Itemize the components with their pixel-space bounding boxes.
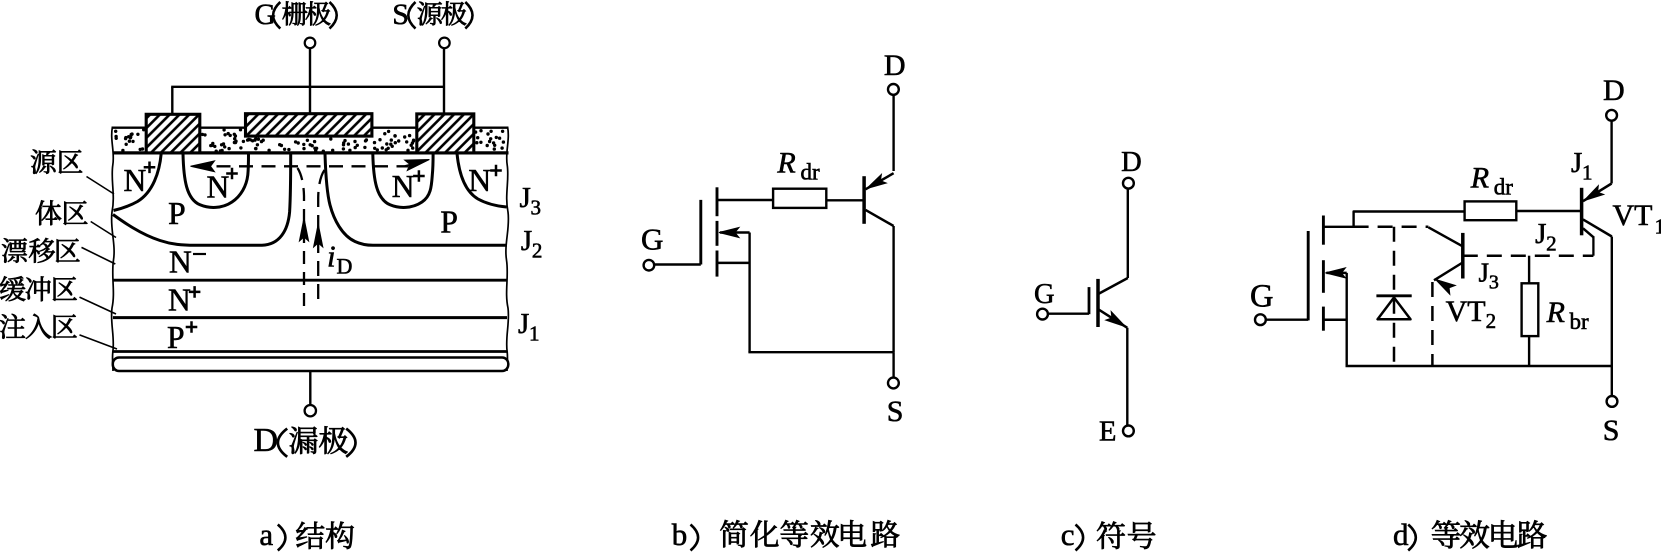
junction J2 P-well boundary left + channel funnel left (a) bbox=[113, 154, 291, 245]
torn edge left (a) bbox=[112, 127, 115, 372]
wire VT1 collector B down to J2 line (d) bbox=[1592, 236, 1594, 256]
leader line 缓冲区 (a) bbox=[80, 297, 117, 314]
wire D vertical (b) bbox=[892, 95, 894, 171]
wire collector down (b) bbox=[892, 226, 894, 352]
label 注入区 injection region (a) bbox=[0, 314, 25, 339]
svg-text:P: P bbox=[440, 204, 458, 239]
transistor V1 emitter diagonal with arrow (b) bbox=[866, 173, 894, 189]
wire drain lead (a) bbox=[309, 371, 311, 405]
dashed base line J2: VT2 base to VT1 collector (d) bbox=[1463, 254, 1594, 257]
wire Rdr to MOSFET drain (b) bbox=[717, 199, 773, 201]
transistor V1 collector diagonal (b) bbox=[866, 210, 894, 226]
svg-text:G: G bbox=[641, 221, 663, 256]
svg-text:c: c bbox=[1061, 517, 1075, 552]
svg-text:i: i bbox=[327, 239, 336, 274]
transistor VT2 collector diagonal (d) bbox=[1428, 227, 1463, 247]
svg-text:S: S bbox=[392, 0, 409, 31]
wire Rdr to VT1 base (d) bbox=[1516, 210, 1581, 212]
terminal D circle (c) bbox=[1123, 178, 1134, 189]
wire source down (b) bbox=[748, 233, 750, 353]
svg-text:N: N bbox=[468, 163, 491, 198]
N+ source pocket far-left (a) bbox=[114, 154, 162, 211]
svg-text:N: N bbox=[207, 170, 230, 205]
MOSFET body arrow (b) bbox=[720, 231, 750, 234]
leader line 体区 (a) bbox=[91, 222, 116, 238]
transistor VT1 collector diagonal A to S (d) bbox=[1583, 219, 1612, 236]
wire bottom rail (b) bbox=[748, 351, 893, 353]
wire S stub (d) bbox=[1611, 366, 1613, 396]
MOSFET gate bar (b) bbox=[699, 200, 702, 265]
svg-text:J: J bbox=[1571, 147, 1582, 179]
label 缓冲区 buffer region (a) bbox=[0, 276, 25, 301]
svg-text:N: N bbox=[169, 245, 192, 280]
transistor VT1 emitter diagonal with arrow (d) bbox=[1583, 184, 1612, 202]
svg-text:VT: VT bbox=[1446, 295, 1486, 328]
svg-text:dr: dr bbox=[1494, 175, 1514, 200]
terminal G circle (d) bbox=[1255, 314, 1266, 325]
terminal E circle (c) bbox=[1123, 426, 1134, 437]
svg-text:D: D bbox=[254, 422, 279, 459]
electrode source metal left (a) bbox=[146, 114, 200, 153]
svg-text:1: 1 bbox=[1582, 161, 1593, 185]
svg-text:J: J bbox=[1479, 258, 1490, 288]
MOSFET source contact (d) bbox=[1323, 318, 1346, 321]
wire MOSFET source down (d) bbox=[1345, 273, 1347, 366]
svg-text:R: R bbox=[1470, 162, 1489, 195]
terminal D circle (d) bbox=[1606, 110, 1617, 121]
terminal S circle (b) bbox=[888, 378, 899, 389]
svg-text:VT: VT bbox=[1613, 199, 1653, 232]
terminal G circle (b) bbox=[644, 260, 655, 271]
svg-text:J: J bbox=[520, 182, 531, 214]
wire left drop to source metal (a) bbox=[171, 87, 173, 115]
wire G lead (c) bbox=[1048, 313, 1089, 315]
svg-text:N: N bbox=[168, 283, 191, 318]
resistor Rbr box (d) bbox=[1522, 283, 1539, 336]
wire R_br bottom (d) bbox=[1528, 336, 1530, 366]
label 源区 source region (a) bbox=[31, 149, 56, 173]
svg-text:D: D bbox=[337, 254, 353, 279]
svg-text:R: R bbox=[776, 147, 795, 180]
svg-text:J: J bbox=[1535, 218, 1546, 250]
wire S vertical (a) bbox=[443, 48, 445, 114]
electrode source metal right (a) bbox=[417, 114, 474, 153]
layer boundary N-/N+ buffer (a) bbox=[113, 279, 507, 282]
svg-text:J: J bbox=[521, 225, 532, 257]
wire V1 base to Rdr (b) bbox=[826, 199, 864, 201]
MOSFET channel segments (b) bbox=[716, 187, 719, 216]
terminal G circle (a) bbox=[305, 38, 316, 49]
svg-text:br: br bbox=[1570, 309, 1590, 334]
svg-text:dr: dr bbox=[801, 160, 821, 185]
terminal G circle (c) bbox=[1037, 309, 1048, 320]
transistor VT2 emitter diagonal with arrow (d) bbox=[1434, 262, 1464, 280]
svg-text:N: N bbox=[124, 163, 147, 198]
IGBT gate bar (c) bbox=[1088, 287, 1091, 314]
svg-text:1: 1 bbox=[1655, 215, 1661, 239]
electrode gate metal middle (a) bbox=[246, 114, 372, 136]
dashed drain current line right iD (a) bbox=[318, 170, 324, 305]
svg-text:D: D bbox=[1603, 74, 1625, 107]
wire source bus horizontal (a) bbox=[171, 86, 444, 88]
transistor VT1 PNP bar (d) bbox=[1580, 188, 1584, 236]
wire E vertical (c) bbox=[1126, 328, 1128, 426]
wire bottom rail (d) bbox=[1346, 365, 1612, 367]
junction J1 N+/P+ (a) bbox=[113, 316, 507, 319]
leader line 漂移区 (a) bbox=[82, 247, 116, 264]
dashed wire MOSFET drain to VT2 collector (d) bbox=[1354, 226, 1429, 229]
svg-text:D: D bbox=[1121, 147, 1142, 178]
IGBT channel bar (c) bbox=[1096, 279, 1100, 327]
MOSFET source contact (b) bbox=[717, 262, 750, 265]
dashed diode branch (d) bbox=[1393, 227, 1396, 366]
svg-text:S: S bbox=[1603, 414, 1620, 447]
dashed VT2 emitter down (d) bbox=[1431, 282, 1434, 366]
oxide layer stipple (a) bbox=[114, 128, 505, 153]
terminal S circle (d) bbox=[1607, 396, 1618, 407]
diode VD cathode bar (d) bbox=[1376, 294, 1411, 297]
svg-text:2: 2 bbox=[532, 239, 543, 263]
svg-text:1: 1 bbox=[529, 322, 540, 346]
svg-text:P: P bbox=[167, 320, 185, 355]
svg-text:G: G bbox=[1034, 279, 1055, 310]
svg-text:J: J bbox=[518, 308, 529, 340]
label 漂移区 drift region (a) bbox=[2, 238, 27, 263]
svg-text:G: G bbox=[1250, 279, 1273, 315]
N+ source pocket inner-left (a) bbox=[183, 154, 249, 208]
transistor VT2 NPN bar (d) bbox=[1461, 233, 1465, 279]
leader line 源区 (a) bbox=[87, 177, 115, 195]
dashed channel current line with arrows (a) bbox=[194, 165, 408, 167]
svg-text:2: 2 bbox=[1546, 232, 1557, 256]
N+ source pocket inner-right (a) bbox=[373, 154, 433, 208]
IGBT emitter diagonal with arrow (c) bbox=[1099, 310, 1127, 328]
label 体区 body region (a) bbox=[36, 200, 61, 225]
wire D vertical (d) bbox=[1610, 121, 1612, 184]
svg-text:P: P bbox=[168, 196, 186, 231]
resistor Rdr box (d) bbox=[1465, 201, 1517, 220]
terminal D circle (a) bbox=[305, 405, 316, 416]
layer boundary P+ bottom (a) bbox=[113, 350, 507, 353]
MOSFET gate bar (d) bbox=[1307, 231, 1310, 320]
svg-text:S: S bbox=[887, 395, 904, 428]
leader line 注入区 (a) bbox=[80, 335, 118, 349]
wire S stub (b) bbox=[892, 352, 894, 377]
wire R_br top (d) bbox=[1528, 256, 1530, 284]
resistor Rdr box (b) bbox=[773, 189, 826, 208]
MOSFET channel segments (d) bbox=[1322, 216, 1325, 245]
wire D vertical (c) bbox=[1127, 189, 1129, 278]
svg-text:2: 2 bbox=[1486, 309, 1497, 333]
oxide layer top outline (a) bbox=[113, 127, 508, 129]
terminal S circle (a) bbox=[439, 38, 450, 49]
svg-text:3: 3 bbox=[1489, 272, 1499, 294]
torn edge right (a) bbox=[506, 127, 509, 372]
diode VD triangle (d) bbox=[1378, 298, 1411, 320]
svg-text:a: a bbox=[259, 517, 273, 552]
wire S main vertical (d) bbox=[1611, 237, 1613, 367]
svg-text:3: 3 bbox=[531, 196, 542, 220]
svg-text:d: d bbox=[1393, 517, 1409, 552]
junction J2 P-well boundary right + channel funnel right (a) bbox=[325, 154, 507, 245]
surface line silicon top (a) bbox=[113, 151, 509, 154]
transistor V1 PNP bar (b) bbox=[862, 176, 866, 224]
MOSFET body arrow (d) bbox=[1326, 272, 1346, 275]
dashed drain current line left iD (a) bbox=[298, 168, 305, 309]
svg-text:E: E bbox=[1099, 417, 1116, 448]
wire G lead (d) bbox=[1266, 319, 1308, 321]
drain metal plate (a) bbox=[113, 358, 509, 372]
svg-text:D: D bbox=[884, 49, 906, 82]
svg-text:b: b bbox=[672, 517, 688, 552]
wire G vertical (a) bbox=[309, 48, 311, 113]
svg-text:R: R bbox=[1546, 296, 1565, 329]
transistor VT1 collector diagonal B to J2 (d) bbox=[1583, 228, 1593, 237]
terminal D circle (b) bbox=[888, 84, 899, 95]
wire G lead (b) bbox=[654, 263, 701, 265]
N+ source pocket far-right (a) bbox=[457, 154, 507, 208]
IGBT collector diagonal (c) bbox=[1099, 278, 1128, 294]
svg-text:N: N bbox=[392, 169, 415, 204]
MOSFET drain contact + wire to Rdr (d) bbox=[1323, 212, 1464, 227]
